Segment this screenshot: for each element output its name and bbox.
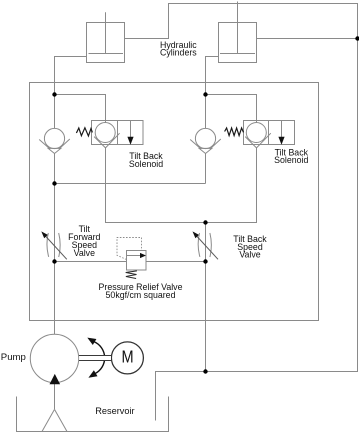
svg-text:Pump: Pump [1, 352, 26, 363]
svg-text:Valve: Valve [74, 248, 95, 258]
svg-text:Cylinders: Cylinders [160, 48, 197, 58]
svg-text:Reservoir: Reservoir [95, 406, 134, 416]
svg-text:Solenoid: Solenoid [129, 159, 163, 169]
svg-text:50kgf/cm squared: 50kgf/cm squared [106, 290, 176, 300]
svg-text:Valve: Valve [239, 249, 260, 259]
svg-text:Solenoid: Solenoid [274, 155, 308, 165]
svg-text:M: M [122, 347, 134, 367]
